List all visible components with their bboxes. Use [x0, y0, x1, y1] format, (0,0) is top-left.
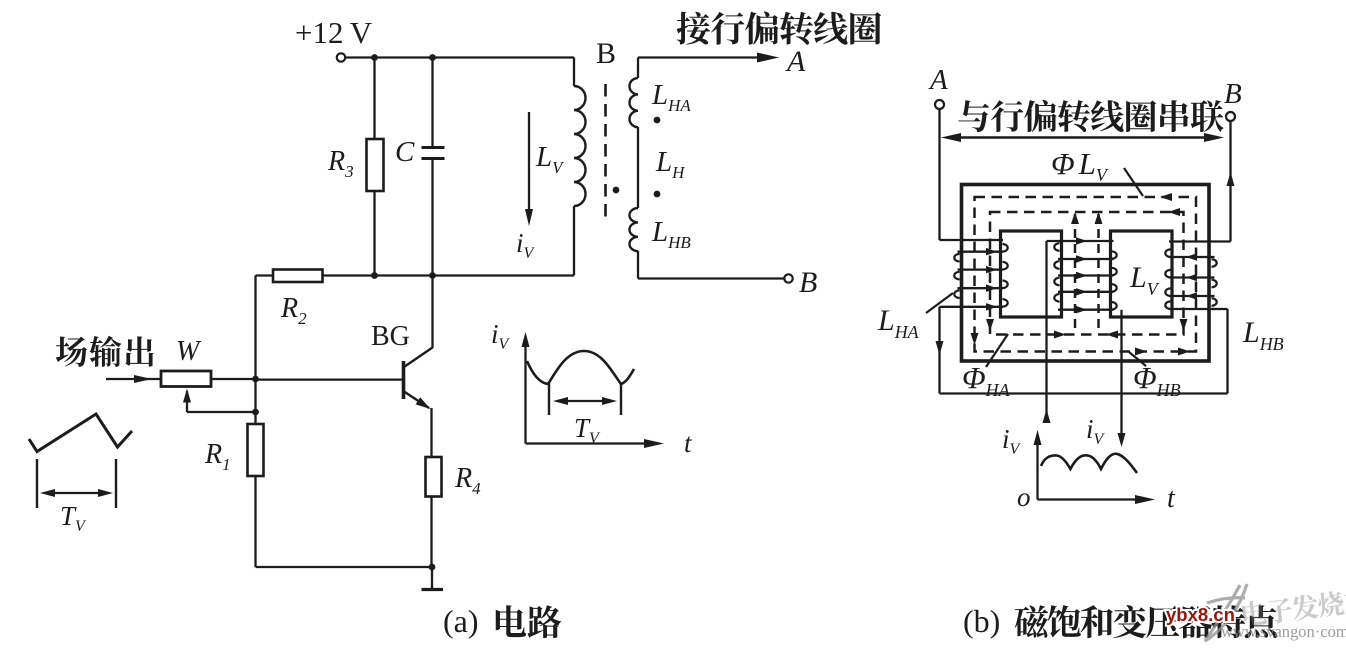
svg-text:B: B — [799, 266, 817, 299]
svg-text:ybx8.cn: ybx8.cn — [1166, 604, 1235, 625]
svg-text:(b): (b) — [963, 603, 1000, 639]
svg-text:A: A — [785, 45, 806, 78]
svg-text:W: W — [176, 336, 202, 367]
svg-text:+12 V: +12 V — [295, 15, 373, 50]
svg-text:(a): (a) — [443, 603, 479, 639]
svg-text:www.svangon·com: www.svangon·com — [1221, 622, 1346, 641]
svg-text:BG: BG — [371, 321, 410, 352]
svg-text:B: B — [1224, 78, 1242, 110]
svg-text:B: B — [596, 37, 616, 70]
svg-text:t: t — [1167, 483, 1176, 514]
svg-text:C: C — [395, 136, 415, 168]
svg-text:o: o — [1017, 482, 1031, 512]
svg-text:A: A — [928, 64, 948, 96]
